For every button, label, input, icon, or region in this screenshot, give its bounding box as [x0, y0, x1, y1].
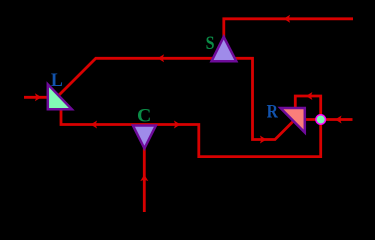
svg-text:C: C — [137, 107, 151, 127]
wire top input from right edge into S — [224, 19, 353, 40]
component C triangle — [133, 126, 156, 149]
wire upper bus from L diagonal to S and on to corner — [57, 58, 295, 139]
svg-text:R: R — [267, 103, 279, 123]
wire input into C from bottom — [143, 145, 146, 212]
arrow on top wire pointing left — [284, 15, 291, 23]
wire bottom bus from L down through C to node — [61, 107, 321, 157]
component L triangle — [48, 84, 72, 109]
arrow between C and L pointing left — [91, 121, 98, 129]
node junction circle — [316, 115, 326, 125]
wire input into L from left — [24, 96, 47, 99]
arrow right of C pointing right — [174, 121, 181, 129]
arrow on upper bus pointing left (toward S from L side) — [158, 54, 165, 62]
svg-text:L: L — [51, 71, 63, 91]
arrow on lower middle segment pointing right toward R — [260, 136, 267, 144]
svg-text:S: S — [206, 34, 215, 54]
arrow right input pointing left into node — [335, 116, 342, 124]
component R triangle — [281, 108, 305, 133]
arrow into C pointing up — [140, 175, 148, 182]
arrow on feedback loop pointing left — [306, 92, 313, 100]
wire R output through node to right edge input — [300, 118, 353, 121]
component S triangle — [212, 37, 237, 62]
arrow into L pointing right — [35, 93, 42, 101]
wire feedback loop from node over R — [295, 96, 320, 120]
